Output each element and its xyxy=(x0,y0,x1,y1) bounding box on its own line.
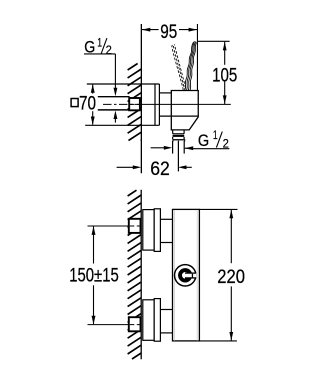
neck between flange and body (top view) xyxy=(159,93,198,116)
body face lines (lower view) xyxy=(175,210,198,341)
outlet centerline / 62 extension xyxy=(177,141,179,172)
svg-text:2: 2 xyxy=(106,43,112,57)
lever handle (dashed alternate position) xyxy=(172,45,186,90)
bottom union nut xyxy=(129,317,141,331)
svg-text:70: 70 xyxy=(79,93,96,115)
bottom connection nipple xyxy=(160,310,172,333)
svg-text:105: 105 xyxy=(212,65,237,87)
svg-text:150±15: 150±15 xyxy=(69,265,119,287)
bottom union centerline / 150 extension xyxy=(88,324,141,326)
union nut in wall (top view) xyxy=(129,98,140,110)
svg-text:1: 1 xyxy=(97,36,102,50)
mixer body (top view) xyxy=(171,91,198,130)
dimension 105 (right) xyxy=(197,41,237,104)
top union centerline / 150 extension xyxy=(88,225,141,227)
wall face line (lower view) xyxy=(140,190,142,360)
svg-text:220: 220 xyxy=(217,266,245,288)
wall face line (top view), also 95/62 extension xyxy=(140,24,142,173)
wall hatch (lower view) xyxy=(128,190,142,359)
svg-text:62: 62 xyxy=(150,158,170,180)
bottom escutcheon plate xyxy=(143,299,161,342)
top escutcheon plate xyxy=(143,209,161,252)
dimension square-70 (left) xyxy=(71,84,96,125)
wall hatch (top view) xyxy=(128,64,142,141)
outlet pipe G1/2 (top view) xyxy=(173,141,185,154)
dimension 62 (bottom) xyxy=(117,158,192,180)
dimension 150±15 (left) xyxy=(69,226,119,324)
mixer body (lower view) xyxy=(173,209,200,341)
extension line 95 right / handle tip xyxy=(196,24,198,90)
top union nut xyxy=(129,219,141,233)
label G 1/2 (top left) with leader xyxy=(84,36,117,123)
svg-text:G: G xyxy=(198,131,209,150)
svg-text:1: 1 xyxy=(213,128,218,142)
top connection nipple xyxy=(160,219,172,242)
square escutcheon flange 70mm (top view) xyxy=(85,84,159,125)
dimension 220 (right) xyxy=(199,209,245,341)
svg-text:95: 95 xyxy=(160,21,177,43)
supply centerline (top view) xyxy=(103,103,231,105)
dimension 95 (top) xyxy=(141,21,197,43)
lever handle (solid position) xyxy=(185,42,197,91)
label G 1/2 (bottom) with arrows xyxy=(151,128,230,151)
supply pipe G1/2 (top view) xyxy=(98,97,130,110)
GROHE logo xyxy=(175,265,197,286)
outlet connector stack (top view) xyxy=(172,130,185,142)
